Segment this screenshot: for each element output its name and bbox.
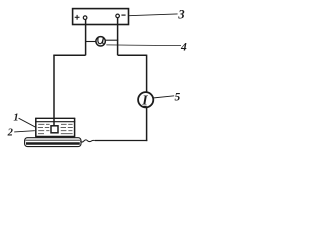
wire ammeter bottom vertical [146,108,148,142]
wire horizontal left segment [53,54,85,56]
leader line to label 4 [106,44,181,47]
leader line to label 5 [153,96,175,98]
negative terminal [116,14,120,18]
heating element (small square body) [51,126,58,133]
minus polarity mark [121,14,125,16]
plus polarity mark [75,15,80,20]
wire from negative terminal down [117,18,119,56]
svg-text:2: 2 [7,127,14,138]
svg-text:5: 5 [175,91,181,103]
label 1 [13,112,18,123]
power supply box (battery) [73,9,129,25]
wire right horizontal segment [118,54,147,56]
label 3 [177,7,184,21]
wire right vertical to ammeter [146,55,148,92]
stand base plate (label 2) [25,138,81,147]
ammeter A1 [138,92,153,107]
wire bottom horizontal [95,140,148,142]
wire from positive terminal down [85,19,87,55]
svg-text:4: 4 [180,41,187,53]
label 4 [180,41,187,53]
leader line to label 3 [129,14,178,16]
positive terminal [83,16,87,20]
voltmeter U1 [96,37,105,46]
label 5 [175,91,181,103]
leader line to label 2 [14,131,35,132]
calorimeter vessel (label 1) [35,118,75,137]
svg-text:3: 3 [177,7,184,21]
wire voltmeter left stub [86,41,96,43]
liquid shading dashes [38,124,73,133]
wire voltmeter right stub [106,39,119,41]
wire left vertical down to heater [53,55,55,127]
flexible lead squiggle [80,140,95,142]
svg-text:I: I [141,93,148,108]
svg-text:1: 1 [13,112,18,123]
label 2 [7,127,14,138]
leader line to label 1 [19,118,36,127]
